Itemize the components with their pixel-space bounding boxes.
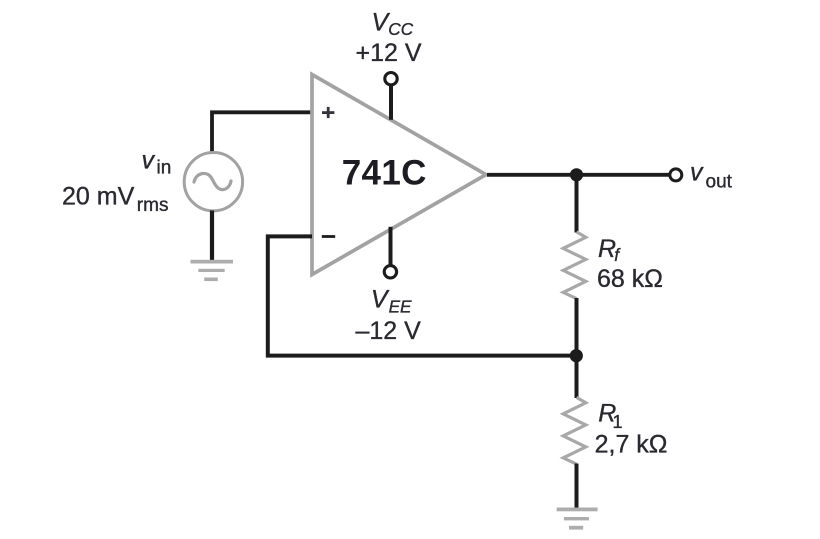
svg-text:68 kΩ: 68 kΩ — [597, 265, 663, 293]
svg-text:741C: 741C — [342, 153, 427, 192]
svg-text:20 mV: 20 mV — [62, 182, 135, 210]
svg-text:2,7 kΩ: 2,7 kΩ — [595, 430, 668, 458]
wire: node to Rf — [575, 175, 579, 233]
wire: VEE stub — [389, 227, 393, 265]
svg-text:out: out — [706, 172, 733, 193]
svg-text:+12 V: +12 V — [356, 39, 422, 67]
feedback wire to - input — [268, 236, 577, 355]
wire: source bottom to ground — [210, 211, 214, 262]
resistor R1 zigzag — [563, 397, 586, 464]
svg-text:v: v — [690, 158, 704, 186]
wire: junction to R1 — [575, 356, 579, 398]
svg-text:in: in — [157, 158, 172, 179]
svg-text:1: 1 — [613, 412, 623, 432]
op-amp - input mark — [322, 235, 335, 238]
wire: + input to source top — [212, 112, 312, 153]
ground (output) — [557, 508, 598, 530]
op-amp + input mark — [322, 107, 334, 118]
svg-text:rms: rms — [137, 195, 169, 216]
wire: output — [487, 173, 670, 177]
op-amp U1 triangle — [312, 75, 486, 275]
svg-text:v: v — [142, 146, 156, 174]
node dot (output node) — [570, 168, 583, 181]
wire: Rf to junction — [575, 298, 579, 356]
wire: R1 to ground — [575, 464, 579, 509]
svg-text:CC: CC — [388, 19, 413, 39]
terminal VEE circle — [384, 266, 396, 278]
junction dot (feedback node) — [570, 349, 583, 362]
svg-text:EE: EE — [389, 296, 412, 316]
svg-text:f: f — [614, 245, 621, 265]
terminal VCC circle — [385, 73, 397, 85]
ground (input) — [191, 260, 234, 281]
source V1 (AC sine source) — [184, 153, 242, 211]
svg-text:–12 V: –12 V — [356, 317, 422, 345]
wire: VCC stub — [389, 86, 393, 120]
terminal vout circle — [670, 169, 682, 181]
svg-text:V: V — [371, 286, 390, 314]
resistor Rf zigzag — [563, 232, 586, 299]
